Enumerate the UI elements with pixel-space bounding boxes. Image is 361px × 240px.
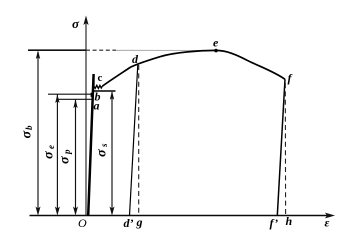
svg-text:d: d bbox=[132, 52, 139, 66]
label sigma_e (rotated) bbox=[41, 145, 56, 159]
dimension arrow sigma_p bbox=[73, 99, 78, 216]
sigma_p level line bbox=[58, 98, 92, 100]
svg-text:σ: σ bbox=[57, 156, 72, 164]
sigma_s level line bbox=[94, 90, 116, 92]
x-axis (epsilon axis) bbox=[30, 213, 336, 219]
svg-text:a: a bbox=[94, 99, 100, 113]
svg-text:g: g bbox=[136, 215, 143, 229]
svg-text:σ: σ bbox=[41, 151, 56, 159]
svg-text:f’: f’ bbox=[270, 216, 279, 230]
svg-text:c: c bbox=[98, 72, 103, 84]
dimension arrow sigma_b bbox=[36, 50, 41, 215]
unloading line d to d' (solid) bbox=[130, 65, 138, 216]
svg-text:σ: σ bbox=[20, 131, 35, 139]
svg-text:σ: σ bbox=[72, 16, 80, 31]
svg-text:b: b bbox=[24, 125, 34, 130]
dimension arrow sigma_e bbox=[55, 94, 60, 216]
svg-text:h: h bbox=[286, 214, 293, 228]
necking drop f to f' (solid) bbox=[277, 79, 285, 215]
svg-text:O: O bbox=[78, 216, 87, 230]
svg-text:f: f bbox=[288, 71, 293, 85]
ink blob at sigma_e line / elastic line junction bbox=[91, 93, 94, 97]
dashed line f to h bbox=[284, 83, 286, 216]
drop from c to yield plateau bbox=[93, 74, 95, 86]
faint continuation of sigma_b level toward e bbox=[116, 49, 210, 51]
svg-text:ε: ε bbox=[325, 216, 330, 230]
point e dot bbox=[214, 49, 218, 53]
svg-text:p: p bbox=[62, 149, 72, 155]
svg-text:σ: σ bbox=[94, 149, 109, 157]
svg-text:s: s bbox=[99, 143, 109, 148]
svg-text:d’: d’ bbox=[124, 216, 134, 230]
elastic loading line O to c (thick) bbox=[88, 74, 93, 216]
svg-text:e: e bbox=[213, 36, 219, 50]
sigma_b level line (solid part) bbox=[28, 49, 86, 51]
label sigma_p (rotated) bbox=[57, 149, 72, 164]
sigma_b level line (dashed part to curve at e) bbox=[86, 49, 116, 51]
dimension arrow sigma_s bbox=[110, 91, 115, 216]
sigma_e level line bbox=[48, 93, 93, 95]
hardening curve c..d..e..f bbox=[102, 50, 285, 86]
label sigma_s (rotated) bbox=[94, 143, 109, 157]
svg-text:e: e bbox=[46, 145, 56, 149]
label sigma_b (rotated) bbox=[20, 125, 35, 139]
yield zigzag plateau bbox=[94, 85, 103, 88]
y-axis (sigma axis) bbox=[83, 16, 88, 216]
dashed line d to g bbox=[138, 65, 140, 216]
